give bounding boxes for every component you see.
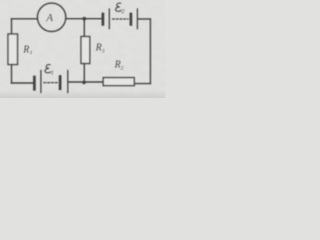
svg-text:3: 3: [101, 48, 105, 54]
svg-text:R: R: [95, 43, 102, 54]
svg-text:2: 2: [121, 65, 124, 71]
svg-text:2: 2: [122, 9, 125, 15]
svg-text:A: A: [45, 12, 53, 24]
svg-text:1: 1: [30, 50, 33, 56]
svg-text:1: 1: [51, 71, 54, 77]
svg-text:R: R: [22, 44, 29, 55]
